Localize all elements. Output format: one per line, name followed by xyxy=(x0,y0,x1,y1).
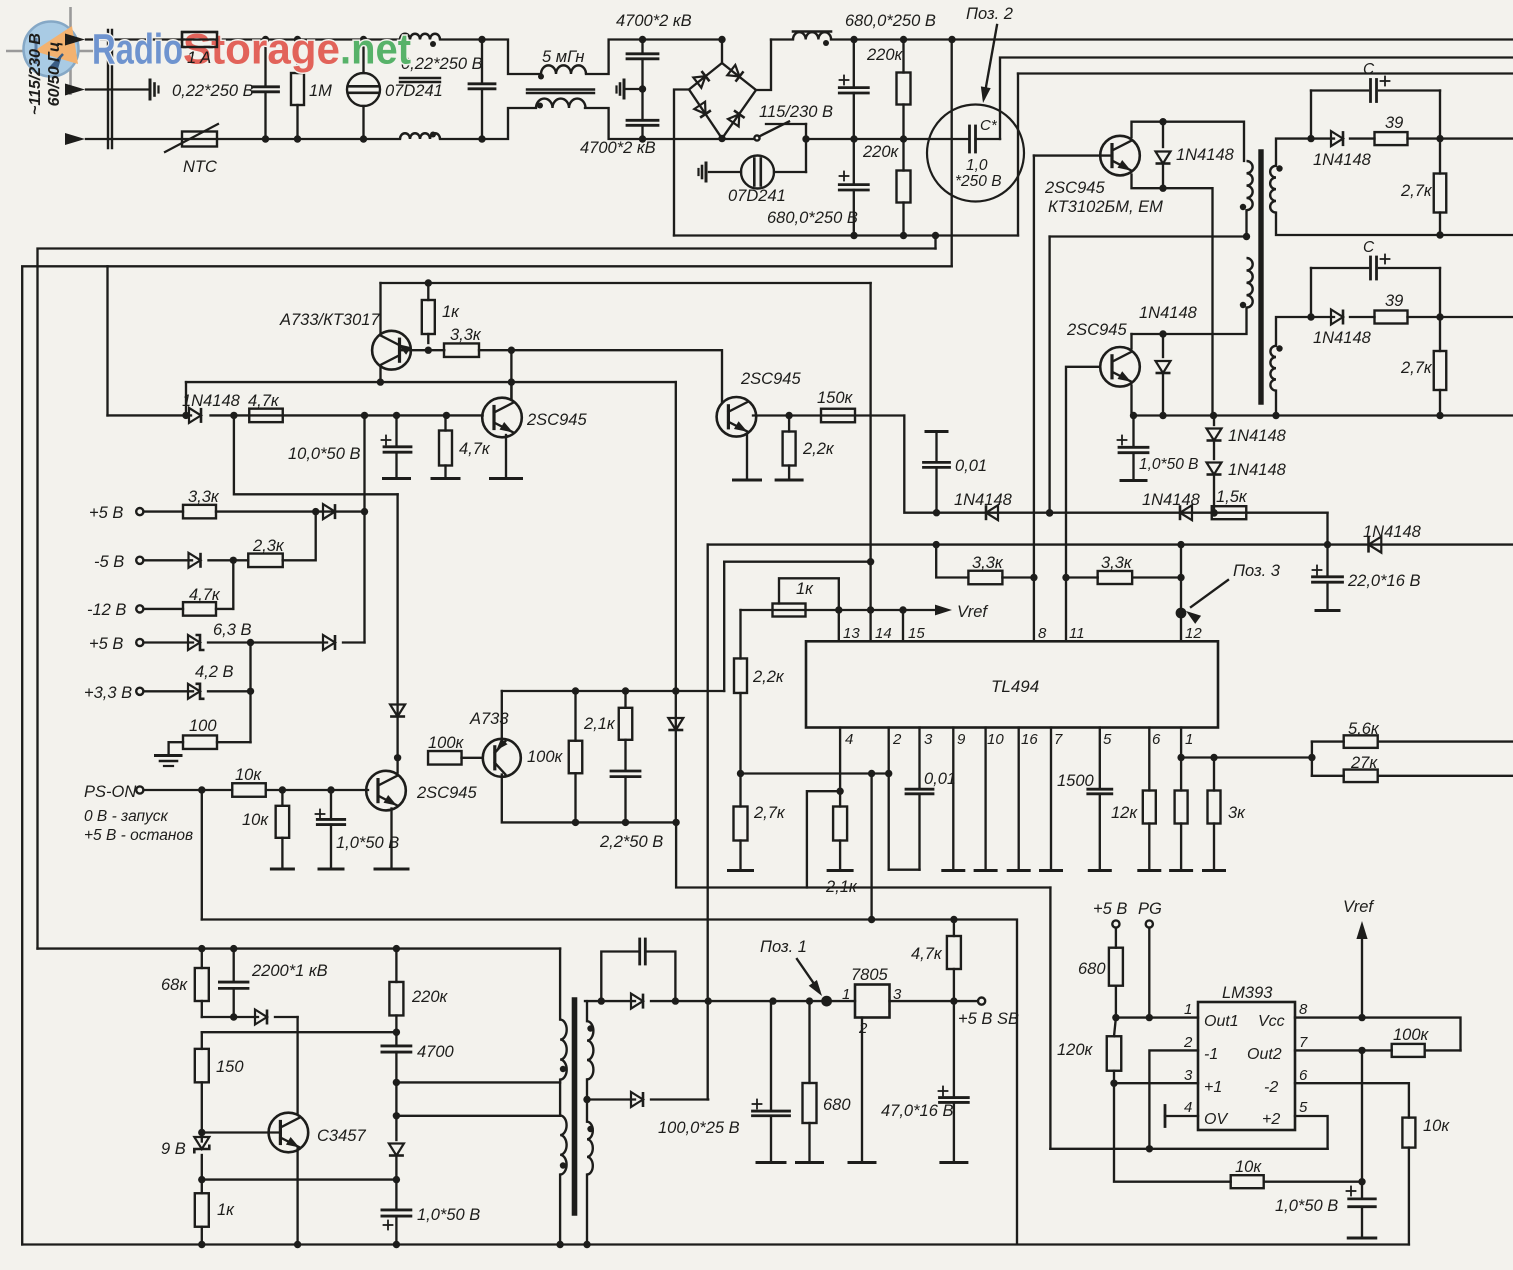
capacitor 680,0*250 V top xyxy=(840,79,849,81)
svg-text:3к: 3к xyxy=(1228,804,1246,822)
wire pin4 xyxy=(839,728,841,792)
capacitor C* 1,0*250 V xyxy=(968,126,971,152)
circle pos 2 xyxy=(927,105,1024,202)
resistor 1k standby xyxy=(201,1180,203,1194)
transistor Q4 2SC945 xyxy=(482,398,522,438)
wire 150k to diode row xyxy=(904,416,1327,513)
svg-text:1M: 1M xyxy=(309,82,332,100)
wire vertical x951 xyxy=(951,40,953,267)
wire T1 center tap xyxy=(1050,235,1247,237)
wire LM393 pin6 xyxy=(1295,1083,1409,1117)
svg-text:8: 8 xyxy=(1038,625,1047,642)
svg-text:-2: -2 xyxy=(1264,1079,1278,1096)
capacitor 1,0*50 V Q2 xyxy=(1118,439,1127,441)
input +5 V zener row xyxy=(136,639,143,646)
svg-text:1: 1 xyxy=(1185,731,1193,748)
wire vertical x935 xyxy=(934,236,936,249)
wire Q4 collector link xyxy=(510,350,512,399)
chassis ground 100 xyxy=(156,754,182,757)
svg-text:1,0: 1,0 xyxy=(966,157,988,174)
svg-text:220к: 220к xyxy=(411,988,449,1006)
svg-text:+5 В: +5 В xyxy=(89,635,123,653)
capacitor 47,0*16 V xyxy=(939,1090,948,1092)
resistor 68k xyxy=(195,968,209,1001)
resistor 100k a xyxy=(428,751,462,765)
wire 3,3k to Q3 base xyxy=(479,350,722,403)
svg-text:.net: .net xyxy=(340,26,411,74)
resistor 120k xyxy=(1107,1036,1122,1071)
varistor 07D241 #2 xyxy=(741,156,774,189)
svg-text:1N4148: 1N4148 xyxy=(1176,146,1235,164)
resistor 150k xyxy=(821,409,855,423)
varistor 07D241 xyxy=(347,73,380,106)
wire Q2 base to pin11 xyxy=(1066,367,1100,642)
diode on x675 xyxy=(668,718,683,730)
fuse 1 A xyxy=(182,32,217,47)
resistor 4,7k vertical xyxy=(439,431,452,466)
wire pin2 row y773 xyxy=(741,772,889,774)
wire pin7 xyxy=(1050,728,1052,871)
svg-text:С3457: С3457 xyxy=(317,1127,366,1145)
svg-text:3,3к: 3,3к xyxy=(972,554,1004,572)
svg-text:1,0*50 В: 1,0*50 В xyxy=(417,1206,480,1224)
input +5 V row xyxy=(136,508,143,515)
resistor 5,6k xyxy=(1312,740,1344,742)
svg-text:15: 15 xyxy=(908,625,925,642)
wire pin4 L-link xyxy=(807,791,840,887)
transformer T1 secondary lower xyxy=(1270,346,1276,391)
wire pin13 stub xyxy=(838,610,840,641)
resistor 39 snubber 1 xyxy=(1375,132,1408,145)
resistor 4,7k standby xyxy=(953,920,955,937)
svg-text:4: 4 xyxy=(845,731,853,748)
svg-text:60/50 Гц: 60/50 Гц xyxy=(46,42,63,107)
capacitor 1,0*50 V standby xyxy=(382,1209,411,1212)
wire Q5 collector drop xyxy=(379,368,381,383)
svg-text:3,3к: 3,3к xyxy=(188,488,220,506)
svg-text:0,01: 0,01 xyxy=(924,770,956,788)
diode 1N4148 Q2 xyxy=(1162,334,1164,357)
diode standby fb xyxy=(395,1082,397,1140)
resistor 1k TL494 xyxy=(773,604,806,617)
svg-text:Поз. 3: Поз. 3 xyxy=(1233,562,1281,580)
svg-text:47,0*16 В: 47,0*16 В xyxy=(881,1102,953,1120)
wire drop x397 to Q6 xyxy=(396,494,398,758)
wire to C3457 collector xyxy=(296,1017,298,1114)
resistor 1,5k xyxy=(1212,506,1247,519)
svg-text:4,2 В: 4,2 В xyxy=(195,663,234,681)
svg-text:220к: 220к xyxy=(866,46,904,64)
resistor 2,1k pin4 xyxy=(839,791,841,806)
svg-text:07D241: 07D241 xyxy=(728,187,786,205)
wire Vref column xyxy=(1361,1050,1363,1198)
svg-text:3: 3 xyxy=(924,731,933,748)
svg-text:12: 12 xyxy=(1185,625,1202,642)
svg-text:4,7к: 4,7к xyxy=(911,945,943,963)
svg-text:4,7к: 4,7к xyxy=(459,440,491,458)
diode row1 xyxy=(323,504,335,519)
resistor 2,7k TL494 xyxy=(739,774,741,807)
resistor 10k v xyxy=(1402,1118,1415,1148)
wire Q5 base node xyxy=(400,349,428,351)
svg-text:2,7к: 2,7к xyxy=(1400,182,1433,200)
wire bus right y73 xyxy=(1018,72,1513,74)
terminal PG xyxy=(1146,920,1153,927)
svg-text:680,0*250 В: 680,0*250 В xyxy=(845,12,936,30)
svg-text:8: 8 xyxy=(1299,1001,1308,1018)
svg-text:5: 5 xyxy=(1103,731,1112,748)
capacitor 0,01 pin3 xyxy=(918,728,920,787)
capacitor C snubber 1 xyxy=(1369,80,1372,102)
svg-text:7: 7 xyxy=(1054,731,1063,748)
wire bus2 xyxy=(22,266,952,1244)
svg-text:68к: 68к xyxy=(161,976,188,994)
svg-text:3,3к: 3,3к xyxy=(1101,554,1133,572)
svg-text:1,0*50 В: 1,0*50 В xyxy=(336,834,399,852)
resistor 220k top xyxy=(897,73,911,105)
svg-text:5: 5 xyxy=(1299,1099,1308,1116)
wire Q1 base xyxy=(1034,154,1112,156)
resistor 2,2k Q3 xyxy=(783,432,796,466)
capacitor 10,0*50 V xyxy=(382,439,391,441)
svg-text:C*: C* xyxy=(980,117,998,134)
resistor 3,3k a xyxy=(968,571,1002,585)
NTC thermistor xyxy=(182,132,217,147)
wire zener column xyxy=(249,643,251,743)
svg-text:Vcc: Vcc xyxy=(1258,1013,1285,1030)
svg-text:+5 В: +5 В xyxy=(1093,900,1127,918)
resistor 39 snubber 2 xyxy=(1375,311,1408,324)
common-mode choke xyxy=(400,34,440,40)
wire x364 branch xyxy=(363,415,365,642)
resistor 10k row xyxy=(1231,1175,1264,1188)
resistor 2,7k snubber 2 xyxy=(1434,351,1447,390)
input -12 V row xyxy=(136,605,143,612)
bridge rectifier xyxy=(721,40,723,64)
svg-text:1к: 1к xyxy=(796,580,814,598)
svg-text:4700: 4700 xyxy=(417,1043,455,1061)
svg-text:10к: 10к xyxy=(1235,1158,1262,1176)
diode 1N4148 stack 1 xyxy=(1213,416,1215,426)
capacitor C snubber 2 xyxy=(1369,257,1372,279)
svg-text:2SC945: 2SC945 xyxy=(526,411,587,429)
wire bus1 xyxy=(38,249,936,949)
svg-text:-1: -1 xyxy=(1204,1046,1218,1063)
svg-text:0,22*250 В: 0,22*250 В xyxy=(172,82,254,100)
wire bus2 drop x107 xyxy=(106,266,108,415)
wire bridge minus to rail xyxy=(674,90,689,236)
svg-text:2SC945: 2SC945 xyxy=(1066,321,1127,339)
wire Q5 collector row xyxy=(186,381,676,383)
wire 1k bypass loop xyxy=(779,578,839,610)
svg-text:C: C xyxy=(1363,61,1375,78)
transformer T1 secondary upper xyxy=(1270,166,1276,213)
diode D6 standby xyxy=(587,1098,635,1100)
chassis ground Y-caps xyxy=(626,88,643,90)
diode 1N4148 snubber 2 xyxy=(1311,316,1334,318)
IC LM393 box xyxy=(1198,1002,1295,1130)
wire LM393 pin1 xyxy=(1114,1016,1198,1018)
wire line y561 xyxy=(724,561,870,563)
wire rail y919 xyxy=(202,920,1017,1244)
diode start xyxy=(202,1016,258,1018)
resistor 100k LM393 xyxy=(1392,1044,1425,1057)
wire pin3 to 10k row xyxy=(1114,1083,1231,1182)
transistor Q7 A733 xyxy=(483,739,521,777)
svg-text:16: 16 xyxy=(1021,731,1038,748)
wire bus x870 (pin14) xyxy=(869,283,871,641)
diode on x397 xyxy=(390,705,405,717)
wire PS-ON drop xyxy=(201,790,203,920)
resistor 10k PS-ON xyxy=(232,783,266,797)
svg-text:NTC: NTC xyxy=(183,158,217,176)
svg-text:1к: 1к xyxy=(217,1201,235,1219)
wire pin12 branch xyxy=(1180,545,1182,642)
diode 1N4148 stack 2 xyxy=(1207,463,1222,475)
wire LM393 pin2 xyxy=(1149,1050,1198,1148)
AC input arrow bottom xyxy=(86,138,108,140)
resistor 220k standby xyxy=(389,982,403,1016)
wire emitter line y283 xyxy=(381,282,871,284)
svg-text:0,01: 0,01 xyxy=(955,457,987,475)
svg-text:2SC945: 2SC945 xyxy=(416,784,477,802)
diode 1N4148 rail xyxy=(1369,537,1382,553)
svg-text:1,0*50 В: 1,0*50 В xyxy=(1139,456,1198,473)
transformer T1 primary lower xyxy=(1247,258,1253,308)
Vref arrow xyxy=(1361,930,1363,1018)
svg-text:115/230 В: 115/230 В xyxy=(759,103,833,121)
capacitor 1,0*50 V LM393 xyxy=(1347,1190,1356,1192)
diode 1N4148 row b xyxy=(1180,505,1192,520)
input +3,3 V zener row xyxy=(136,688,143,695)
wire 7805 gnd xyxy=(861,1018,863,1162)
transformer T1 primary upper xyxy=(1247,161,1253,210)
capacitor 2200*1 kV xyxy=(219,981,248,984)
transistor Q2 2SC945 xyxy=(1100,347,1140,387)
svg-text:0 В - запуск: 0 В - запуск xyxy=(84,808,169,825)
svg-text:Поз. 2: Поз. 2 xyxy=(966,5,1013,23)
capacitor 4700 xyxy=(382,1045,411,1048)
transistor Q8 C3457 xyxy=(269,1113,309,1153)
wire Q7 emitter xyxy=(501,691,503,741)
resistor 680 LM393 xyxy=(1109,948,1123,986)
resistor 100k b xyxy=(569,741,583,774)
svg-text:PS-ON: PS-ON xyxy=(84,783,136,801)
input PS-ON xyxy=(136,786,143,793)
svg-text:1,0*50 В: 1,0*50 В xyxy=(1275,1197,1338,1215)
svg-text:13: 13 xyxy=(843,625,860,642)
diode 1N4148 feedback xyxy=(189,408,201,423)
snubber 1 loop xyxy=(1311,89,1368,91)
capacitor 0,01 TL494 xyxy=(926,430,947,433)
capacitor 100,0*25 V xyxy=(753,1103,762,1105)
svg-text:4,7к: 4,7к xyxy=(189,586,221,604)
snubber 2 loop xyxy=(1311,267,1368,269)
terminal +5 V xyxy=(1112,920,1119,927)
svg-text:2,2к: 2,2к xyxy=(802,440,835,458)
svg-text:-5 В: -5 В xyxy=(94,553,124,571)
svg-text:Out2: Out2 xyxy=(1247,1046,1282,1063)
svg-text:39: 39 xyxy=(1385,114,1403,132)
fuse 1 A overdraw xyxy=(182,38,217,40)
svg-text:22,0*16 В: 22,0*16 В xyxy=(1347,572,1420,590)
svg-text:10к: 10к xyxy=(235,766,262,784)
IC TL494 box xyxy=(806,641,1218,727)
svg-text:TL494: TL494 xyxy=(991,677,1039,696)
svg-text:6,3 В: 6,3 В xyxy=(213,621,252,639)
svg-text:12к: 12к xyxy=(1111,804,1138,822)
wire 1,5k corner to rail xyxy=(1326,513,1328,545)
svg-text:680: 680 xyxy=(1078,960,1106,978)
diode D5 standby xyxy=(585,1000,635,1002)
resistor 3,3k xyxy=(444,343,479,357)
wire pin2 xyxy=(888,728,890,870)
svg-text:0,22*250 В: 0,22*250 В xyxy=(401,55,483,73)
svg-text:+5 В: +5 В xyxy=(89,504,123,522)
svg-text:2,7к: 2,7к xyxy=(1400,359,1433,377)
wire zener row xyxy=(202,1178,397,1180)
svg-text:1N4148: 1N4148 xyxy=(1139,304,1198,322)
wire line y691 xyxy=(502,690,724,692)
svg-text:2SC945: 2SC945 xyxy=(740,370,801,388)
wire Q7 collector xyxy=(502,775,676,823)
svg-text:4,7к: 4,7к xyxy=(248,392,280,410)
svg-text:2,2*50 В: 2,2*50 В xyxy=(599,833,663,851)
svg-text:1: 1 xyxy=(1184,1001,1192,1018)
logo icon xyxy=(6,7,96,95)
wire riser x724 xyxy=(723,562,725,691)
svg-text:Out1: Out1 xyxy=(1204,1013,1239,1030)
svg-text:27к: 27к xyxy=(1350,754,1378,772)
IC 7805 xyxy=(855,985,890,1018)
svg-text:1: 1 xyxy=(842,986,850,1003)
AC input arrow middle (PE) xyxy=(86,88,150,90)
resistor 10k pull xyxy=(281,790,283,806)
svg-text:6: 6 xyxy=(1152,731,1161,748)
transformer T1 core xyxy=(1258,152,1263,402)
svg-text:~115/230 В: ~115/230 В xyxy=(27,33,44,115)
wire pin1 row xyxy=(1181,756,1312,758)
svg-text:39: 39 xyxy=(1385,292,1403,310)
wire 7805 out xyxy=(890,1000,979,1002)
transformer T2 core xyxy=(572,1000,578,1213)
svg-text:PG: PG xyxy=(1138,900,1162,918)
svg-text:1,5к: 1,5к xyxy=(1216,488,1248,506)
svg-text:1N4148: 1N4148 xyxy=(1313,151,1372,169)
svg-text:100,0*25 В: 100,0*25 В xyxy=(658,1119,740,1137)
wire Q2 collector xyxy=(1130,334,1132,349)
zener 9 V xyxy=(194,1137,209,1154)
wire Q1 base bus to pin8 xyxy=(1033,156,1035,642)
svg-text:+5 В - останов: +5 В - останов xyxy=(84,827,193,844)
wire x871 drop xyxy=(870,774,872,920)
wire Q5 emitter riser xyxy=(379,283,381,333)
resistor 2,2k Vref xyxy=(739,610,741,659)
input -5 V row xyxy=(136,557,143,564)
svg-text:1500: 1500 xyxy=(1057,772,1095,790)
svg-text:150к: 150к xyxy=(817,389,854,407)
svg-text:10: 10 xyxy=(987,731,1004,748)
svg-text:+5 В SB: +5 В SB xyxy=(958,1010,1019,1028)
mains connector double bar xyxy=(107,30,109,148)
svg-text:1N4148: 1N4148 xyxy=(954,491,1013,509)
AC input arrow top xyxy=(86,38,108,40)
inductor DC filter xyxy=(793,30,831,33)
svg-text:1 A: 1 A xyxy=(187,49,211,67)
svg-text:C: C xyxy=(1363,239,1375,256)
svg-text:100к: 100к xyxy=(1393,1026,1430,1044)
wire 150 row xyxy=(202,1031,397,1033)
transformer T2 primary xyxy=(559,949,561,1020)
resistor 680 standby xyxy=(808,1001,810,1083)
svg-text:7: 7 xyxy=(1299,1034,1308,1051)
resistor 27k out xyxy=(1312,775,1344,777)
svg-text:5 мГн: 5 мГн xyxy=(542,48,584,66)
svg-text:9 В: 9 В xyxy=(161,1140,186,1158)
resistor 220k bottom xyxy=(897,171,911,203)
svg-text:1к: 1к xyxy=(442,303,460,321)
resistor 4,7k feedback xyxy=(249,409,283,423)
wire feedback row xyxy=(108,414,192,416)
svg-text:11: 11 xyxy=(1069,625,1085,642)
svg-text:1N4148: 1N4148 xyxy=(182,392,241,410)
resistor 2,1k xyxy=(619,708,633,740)
wire tap y1082 xyxy=(396,1081,560,1083)
svg-text:4700*2 кВ: 4700*2 кВ xyxy=(616,12,692,30)
wire center tap bus xyxy=(1048,237,1050,514)
wire LM393 pin7 xyxy=(1295,1049,1392,1051)
capacitor 2,2*50 V xyxy=(611,770,640,773)
svg-text:2,1к: 2,1к xyxy=(583,715,616,733)
svg-text:+2: +2 xyxy=(1262,1111,1280,1128)
wire Q1 emitter xyxy=(1132,175,1213,416)
wire pin15 stub xyxy=(902,610,904,641)
wire pin9 xyxy=(952,728,954,871)
svg-text:1N4148: 1N4148 xyxy=(1363,523,1422,541)
svg-text:10,0*50 В: 10,0*50 В xyxy=(288,445,360,463)
svg-text:+1: +1 xyxy=(1204,1079,1222,1096)
svg-text:5,6к: 5,6к xyxy=(1348,720,1380,738)
resistor 12k pin6 xyxy=(1148,728,1150,791)
svg-text:9: 9 xyxy=(957,731,966,748)
svg-text:+3,3 В: +3,3 В xyxy=(84,684,132,702)
svg-text:2200*1 кВ: 2200*1 кВ xyxy=(251,962,328,980)
svg-text:LM393: LM393 xyxy=(1222,984,1273,1002)
diode 1N4148 snubber 1 xyxy=(1311,137,1334,139)
svg-text:14: 14 xyxy=(875,625,892,642)
resistor pin1 xyxy=(1180,728,1182,791)
svg-text:КТ3102БМ, ЕМ: КТ3102БМ, ЕМ xyxy=(1048,198,1163,216)
svg-text:4: 4 xyxy=(1184,1099,1192,1116)
wire tap y1115 xyxy=(396,1115,560,1117)
resistor 2,7k snubber 1 xyxy=(1434,174,1447,213)
svg-text:А733/КТ3017: А733/КТ3017 xyxy=(279,311,380,329)
diode 1N4148 Q1 xyxy=(1162,122,1164,147)
capacitor 680,0*250 V bottom xyxy=(840,175,849,177)
resistor 3,3k b xyxy=(1098,571,1133,584)
svg-text:120к: 120к xyxy=(1057,1041,1094,1059)
svg-text:2,7к: 2,7к xyxy=(753,804,786,822)
wire rail y544 xyxy=(708,543,1513,545)
resistor 1M xyxy=(291,73,304,105)
wire bottom rail xyxy=(22,1243,1409,1245)
svg-text:Vref: Vref xyxy=(957,603,989,621)
svg-text:2,3к: 2,3к xyxy=(252,537,285,555)
snubber cap T2 loop xyxy=(601,952,637,1002)
wire Q2 emitter rail xyxy=(1130,386,1132,416)
wire feedback drop x233 xyxy=(234,415,398,494)
svg-text:100к: 100к xyxy=(527,748,564,766)
